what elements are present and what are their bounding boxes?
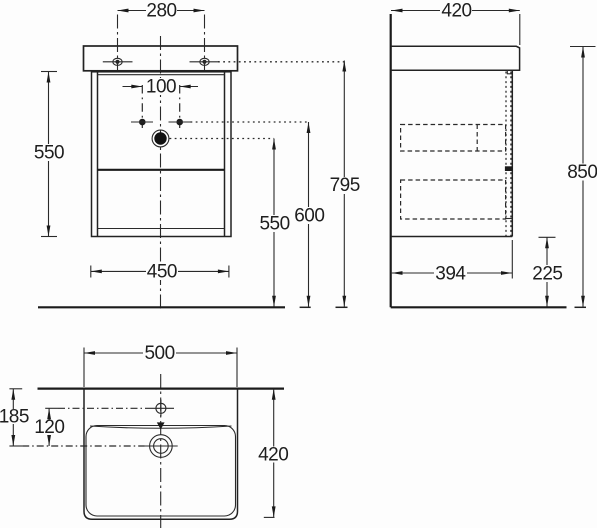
front centerline [160, 36, 162, 310]
svg-text:795: 795 [330, 175, 360, 196]
drawer divider front [98, 169, 225, 171]
cabinet top front edge side view [507, 70, 512, 74]
basin outer outline plan [84, 389, 238, 520]
mounting hole right [190, 15, 220, 71]
svg-text:420: 420 [258, 445, 288, 466]
tap fixing dot right [169, 119, 191, 126]
bowl edge arrow [157, 422, 165, 429]
dimension 600 (tap hole height) [292, 122, 325, 307]
dimension 450 (cabinet width) [91, 261, 229, 282]
dimension 795 (height to holes) [328, 61, 361, 307]
dimension 100 (tap hole spacing) [123, 77, 199, 128]
plan centerline [160, 374, 162, 528]
basin bowl inner outline plan [86, 426, 236, 517]
tap fixing dot left [131, 119, 153, 126]
svg-text:120: 120 [34, 417, 64, 438]
svg-text:185: 185 [0, 406, 29, 427]
svg-text:225: 225 [532, 263, 562, 284]
svg-text:550: 550 [259, 214, 289, 235]
dimension 550 right (drain height) [258, 139, 291, 307]
svg-text:500: 500 [144, 343, 174, 364]
dimension 420 (basin depth) [391, 1, 520, 45]
dimension 394 (cabinet depth) [391, 240, 512, 284]
svg-text:600: 600 [294, 205, 324, 226]
dimension 185 [0, 389, 29, 446]
svg-text:420: 420 [441, 1, 471, 22]
lower drawer hidden box [401, 180, 512, 219]
wall edge line plan [38, 388, 285, 390]
svg-text:550: 550 [34, 143, 64, 164]
wall line [390, 14, 392, 307]
svg-text:850: 850 [567, 162, 597, 183]
svg-text:450: 450 [147, 261, 177, 282]
washbasin side outline [391, 46, 520, 70]
mounting hole left [103, 15, 133, 71]
dotted line drain level [22, 445, 144, 447]
drain hole front [152, 130, 169, 147]
floor line front view [38, 306, 348, 308]
reference dotted line to 550 [170, 138, 275, 140]
dimension 550 left (cabinet height) [33, 72, 65, 237]
cabinet side outline [391, 70, 513, 236]
dimension 850 (total height) [567, 47, 597, 307]
upper drawer hidden box [401, 125, 506, 152]
dimension 120 [34, 408, 65, 446]
svg-text:280: 280 [146, 1, 176, 22]
dimension 225 (clearance height) [531, 237, 564, 306]
floor line side view [391, 306, 586, 308]
drawer divider side mark [505, 166, 513, 171]
washbasin front outline [84, 46, 238, 71]
dimension 500 (basin width) [84, 343, 237, 387]
dotted line tap hole level [58, 407, 146, 409]
cabinet front outline [92, 72, 232, 237]
tap hole plan [146, 400, 174, 417]
reference dotted line to 795 [218, 61, 344, 63]
drain plan [145, 435, 178, 458]
svg-text:394: 394 [435, 263, 466, 284]
dimension 420 plan (basin depth) [257, 389, 290, 518]
reference dotted line to 600 [191, 121, 309, 123]
svg-text:100: 100 [146, 77, 176, 98]
dimension 280 (hole spacing) [118, 1, 205, 22]
